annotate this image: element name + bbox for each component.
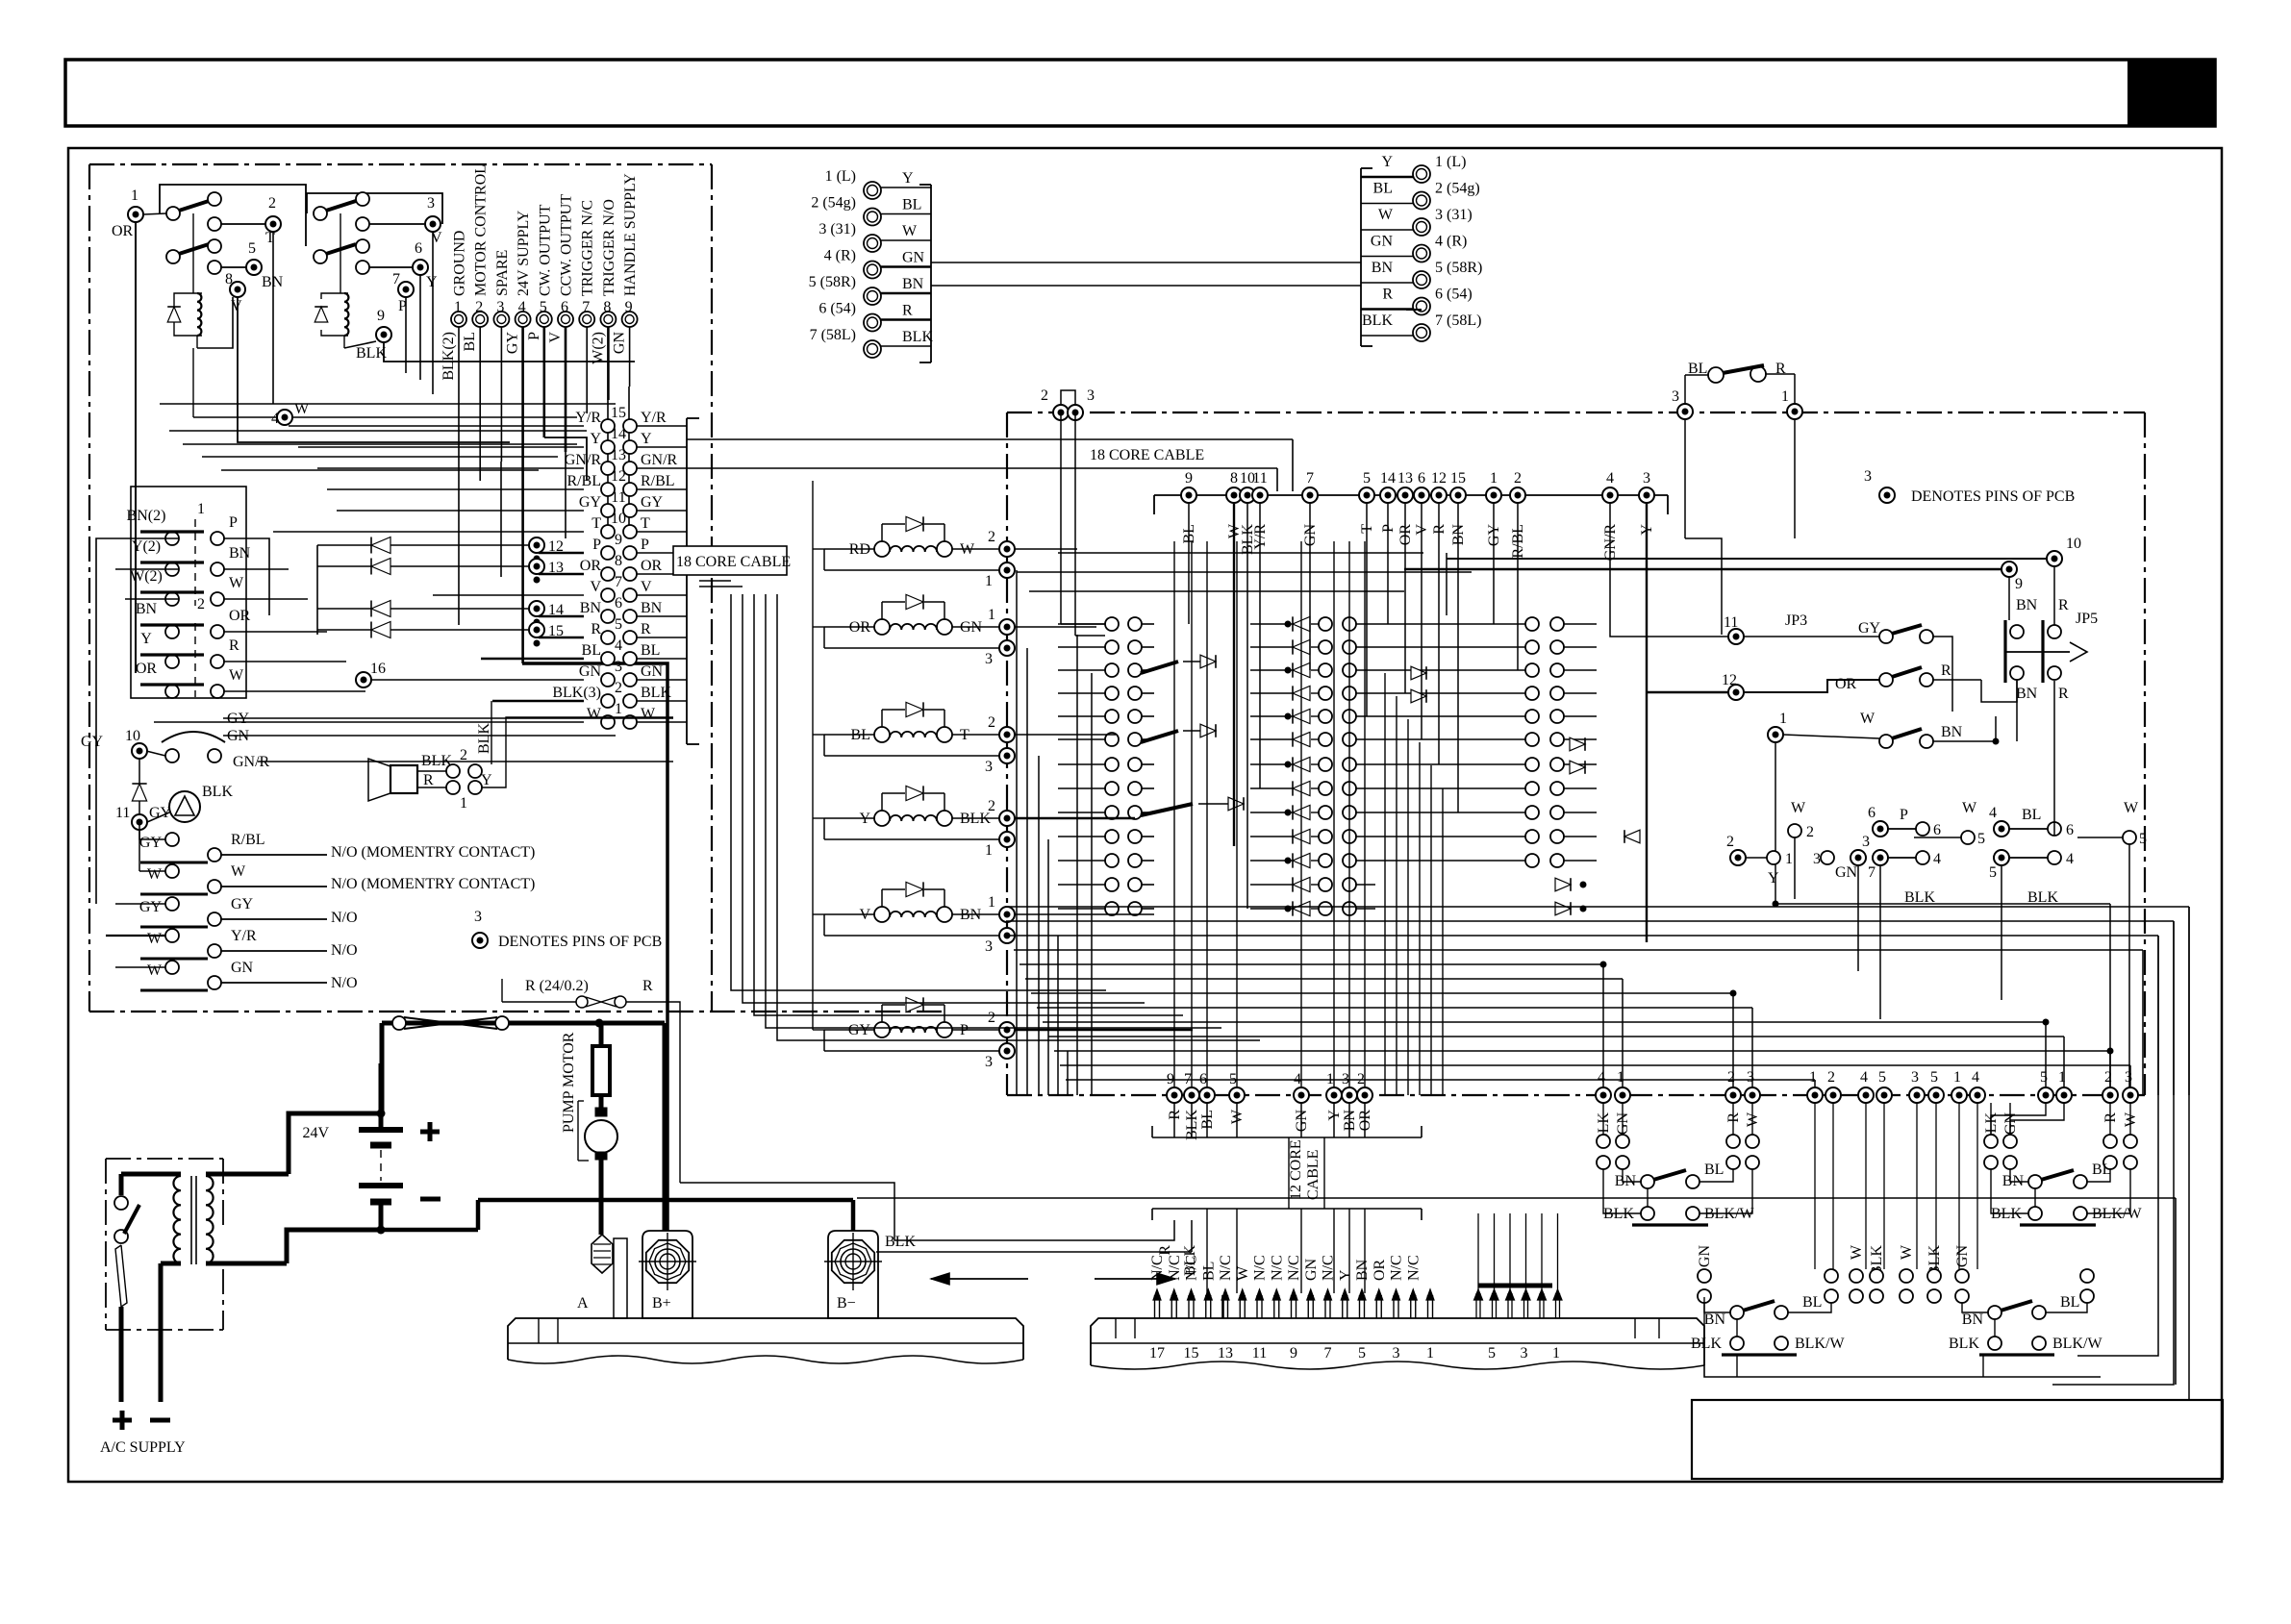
svg-text:BN: BN: [641, 600, 663, 616]
svg-text:6: 6: [1868, 805, 1876, 821]
svg-text:N/O: N/O: [331, 975, 358, 991]
svg-text:W: W: [2124, 800, 2139, 816]
svg-text:5 (58R): 5 (58R): [809, 274, 856, 290]
svg-text:R/BL: R/BL: [566, 473, 601, 489]
svg-text:Y/R: Y/R: [231, 928, 257, 944]
svg-text:GN: GN: [231, 960, 254, 976]
svg-text:T: T: [592, 515, 601, 532]
svg-text:BL: BL: [2092, 1162, 2111, 1178]
svg-text:N/C: N/C: [1269, 1255, 1285, 1281]
svg-text:2: 2: [1514, 470, 1522, 487]
svg-text:Y: Y: [140, 631, 152, 647]
svg-text:GN/R: GN/R: [641, 452, 678, 468]
svg-text:1: 1: [2058, 1069, 2066, 1086]
svg-text:PUMP MOTOR: PUMP MOTOR: [561, 1032, 577, 1133]
svg-text:N/O (MOMENTRY CONTACT): N/O (MOMENTRY CONTACT): [331, 844, 535, 861]
svg-text:R: R: [2058, 597, 2069, 613]
svg-text:13: 13: [1218, 1345, 1233, 1362]
svg-text:Y: Y: [426, 274, 438, 290]
svg-text:BLK: BLK: [356, 345, 387, 362]
svg-text:9: 9: [1290, 1345, 1297, 1362]
svg-text:BL: BL: [1704, 1162, 1724, 1178]
svg-text:GN: GN: [1303, 1258, 1320, 1281]
svg-text:BN: BN: [1372, 260, 1394, 276]
svg-text:6: 6: [1418, 470, 1425, 487]
svg-text:1: 1: [131, 187, 138, 204]
svg-text:1: 1: [197, 501, 205, 517]
svg-text:1: 1: [1490, 470, 1498, 487]
svg-text:T: T: [641, 515, 650, 532]
svg-text:GN: GN: [1835, 864, 1858, 881]
svg-text:7 (58L): 7 (58L): [1435, 312, 1481, 329]
svg-text:R: R: [641, 621, 651, 637]
svg-text:GY: GY: [81, 734, 104, 750]
svg-text:5: 5: [1977, 831, 1985, 847]
svg-text:5: 5: [1488, 1345, 1496, 1362]
svg-text:2: 2: [988, 1010, 995, 1026]
svg-text:5: 5: [2040, 1069, 2048, 1086]
svg-text:3: 3: [1862, 834, 1870, 850]
svg-text:2: 2: [197, 596, 205, 612]
svg-text:BL: BL: [2022, 807, 2041, 823]
svg-text:R: R: [1157, 1245, 1173, 1256]
svg-text:GY: GY: [641, 494, 664, 511]
svg-text:3: 3: [474, 909, 482, 925]
svg-text:N/O: N/O: [331, 942, 358, 959]
svg-text:5: 5: [1229, 1071, 1237, 1087]
svg-text:13: 13: [1397, 470, 1413, 487]
svg-text:N/C: N/C: [1184, 1255, 1200, 1281]
svg-text:2: 2: [1357, 1071, 1365, 1087]
svg-text:3: 3: [1643, 470, 1650, 487]
svg-text:Y(2): Y(2): [132, 538, 161, 555]
svg-text:OR: OR: [641, 558, 663, 574]
svg-text:R: R: [591, 621, 601, 637]
svg-text:JP3: JP3: [1785, 612, 1807, 629]
svg-text:OR: OR: [136, 661, 158, 677]
svg-text:W: W: [229, 575, 244, 591]
svg-text:5: 5: [1363, 470, 1371, 487]
svg-text:BN: BN: [2016, 597, 2038, 613]
svg-text:BN: BN: [1941, 724, 1963, 740]
svg-text:2 (54g): 2 (54g): [1435, 181, 1480, 197]
svg-text:CABLE: CABLE: [1305, 1150, 1322, 1200]
svg-text:Y: Y: [1337, 1269, 1353, 1281]
svg-text:BN: BN: [136, 601, 158, 617]
svg-text:P: P: [1900, 807, 1908, 823]
svg-text:4: 4: [1598, 1069, 1605, 1086]
svg-text:N/C: N/C: [1218, 1255, 1234, 1281]
svg-text:5: 5: [1989, 864, 1997, 881]
svg-text:3: 3: [1521, 1345, 1528, 1362]
svg-text:2: 2: [1727, 1069, 1735, 1086]
svg-text:1 (L): 1 (L): [825, 168, 856, 185]
svg-text:9: 9: [377, 308, 385, 324]
svg-text:OR: OR: [112, 223, 134, 239]
svg-text:2 (54g): 2 (54g): [811, 195, 856, 212]
svg-text:DENOTES PINS OF PCB: DENOTES PINS OF PCB: [498, 934, 662, 950]
svg-text:14: 14: [548, 602, 564, 618]
svg-text:CW. OUTPUT: CW. OUTPUT: [537, 204, 553, 296]
svg-text:2: 2: [1041, 387, 1048, 404]
svg-text:4: 4: [2066, 851, 2074, 867]
svg-text:OR: OR: [1835, 676, 1857, 692]
svg-text:N/O: N/O: [331, 910, 358, 926]
svg-text:1: 1: [1617, 1069, 1624, 1086]
svg-text:7: 7: [1184, 1071, 1192, 1087]
svg-text:14: 14: [1380, 470, 1396, 487]
svg-text:10: 10: [125, 728, 140, 744]
svg-text:15: 15: [1450, 470, 1466, 487]
svg-text:BLK: BLK: [1362, 312, 1393, 329]
svg-text:GY: GY: [505, 332, 521, 355]
svg-text:W: W: [147, 962, 163, 979]
svg-text:W: W: [1378, 207, 1394, 223]
svg-text:OR: OR: [229, 608, 251, 624]
svg-text:3: 3: [615, 659, 622, 675]
svg-text:9: 9: [1167, 1071, 1174, 1087]
svg-text:12: 12: [611, 468, 626, 485]
svg-text:W: W: [1791, 800, 1806, 816]
svg-text:1: 1: [460, 795, 467, 812]
svg-text:14: 14: [611, 426, 626, 442]
svg-text:2: 2: [988, 529, 995, 545]
svg-text:18 CORE CABLE: 18 CORE CABLE: [676, 554, 791, 570]
svg-text:1: 1: [1953, 1069, 1961, 1086]
svg-text:5 (58R): 5 (58R): [1435, 260, 1482, 276]
svg-text:18 CORE CABLE: 18 CORE CABLE: [1090, 447, 1204, 463]
svg-text:7: 7: [1306, 470, 1314, 487]
svg-text:HANDLE SUPPLY: HANDLE SUPPLY: [622, 173, 639, 296]
svg-text:GN: GN: [1954, 1245, 1971, 1268]
svg-text:4 (R): 4 (R): [824, 248, 856, 264]
svg-text:3: 3: [1672, 388, 1679, 405]
svg-text:12: 12: [1431, 470, 1447, 487]
svg-text:P: P: [592, 537, 601, 553]
svg-text:6: 6: [1933, 822, 1941, 838]
svg-text:N/C: N/C: [1389, 1255, 1405, 1281]
svg-text:6: 6: [1199, 1071, 1207, 1087]
svg-text:2: 2: [475, 299, 483, 315]
svg-text:BN: BN: [1962, 1312, 1984, 1328]
svg-text:BN(2): BN(2): [127, 508, 166, 524]
svg-text:15: 15: [548, 623, 564, 639]
svg-text:5: 5: [615, 616, 622, 633]
svg-text:BL: BL: [902, 197, 921, 213]
svg-text:11: 11: [611, 489, 625, 506]
svg-text:5: 5: [248, 240, 256, 257]
svg-text:BL: BL: [641, 642, 660, 659]
svg-text:A: A: [577, 1295, 589, 1312]
svg-text:P: P: [641, 537, 649, 553]
svg-text:6: 6: [415, 240, 422, 257]
svg-text:1: 1: [1809, 1069, 1817, 1086]
svg-text:7: 7: [1324, 1345, 1332, 1362]
svg-text:3: 3: [427, 195, 435, 212]
svg-text:N/C: N/C: [1405, 1255, 1422, 1281]
svg-text:TRIGGER N/C: TRIGGER N/C: [580, 200, 596, 296]
svg-text:OR: OR: [1372, 1259, 1388, 1281]
svg-text:W(2): W(2): [590, 332, 606, 364]
svg-text:3: 3: [985, 1054, 993, 1070]
svg-text:R/BL: R/BL: [231, 832, 265, 848]
svg-text:6: 6: [2066, 822, 2074, 838]
svg-text:2: 2: [988, 798, 995, 814]
svg-text:GN: GN: [902, 250, 925, 266]
svg-text:3 (31): 3 (31): [818, 221, 856, 237]
svg-text:1: 1: [1785, 851, 1793, 867]
svg-text:1: 1: [985, 573, 993, 589]
svg-text:4: 4: [518, 299, 526, 315]
svg-text:2: 2: [1726, 834, 1734, 850]
svg-text:W: W: [229, 667, 244, 684]
svg-text:N/C: N/C: [1167, 1255, 1183, 1281]
svg-text:BLK/W: BLK/W: [2052, 1336, 2102, 1352]
svg-text:BLK(3): BLK(3): [552, 685, 601, 701]
svg-text:3: 3: [2125, 1069, 2132, 1086]
svg-text:6: 6: [615, 595, 622, 612]
svg-text:N/O (MOMENTRY CONTACT): N/O (MOMENTRY CONTACT): [331, 876, 535, 892]
svg-text:13: 13: [611, 447, 626, 463]
svg-text:GY: GY: [579, 494, 602, 511]
svg-text:Y: Y: [590, 431, 601, 447]
svg-text:W: W: [1235, 1265, 1251, 1281]
svg-text:N/C: N/C: [1149, 1255, 1166, 1281]
svg-text:1: 1: [1779, 711, 1787, 727]
svg-text:3: 3: [985, 938, 993, 955]
svg-text:BL: BL: [462, 332, 478, 351]
svg-text:R: R: [1382, 287, 1393, 303]
svg-text:13: 13: [548, 560, 564, 576]
svg-text:6: 6: [561, 299, 568, 315]
svg-text:BN: BN: [1704, 1312, 1726, 1328]
svg-text:7: 7: [392, 271, 400, 287]
svg-text:6 (54): 6 (54): [1435, 287, 1473, 303]
svg-text:GY: GY: [139, 835, 163, 851]
svg-text:BLK: BLK: [641, 685, 671, 701]
svg-text:9: 9: [1185, 470, 1193, 487]
svg-text:4: 4: [1606, 470, 1614, 487]
svg-text:N/C: N/C: [1286, 1255, 1302, 1281]
svg-text:V: V: [641, 579, 652, 595]
svg-text:R: R: [2058, 686, 2069, 702]
svg-text:5: 5: [1930, 1069, 1938, 1086]
svg-text:GY: GY: [1858, 620, 1881, 637]
svg-text:1: 1: [454, 299, 462, 315]
svg-text:3: 3: [1747, 1069, 1754, 1086]
svg-text:4: 4: [1933, 851, 1941, 867]
svg-text:BN: BN: [1354, 1259, 1371, 1281]
svg-text:Y/R: Y/R: [641, 410, 667, 426]
svg-text:GY: GY: [139, 899, 163, 915]
svg-text:A/C SUPPLY: A/C SUPPLY: [100, 1439, 186, 1456]
svg-text:1: 1: [988, 894, 995, 911]
svg-text:1: 1: [1781, 388, 1789, 405]
svg-text:B−: B−: [837, 1295, 856, 1312]
svg-text:4: 4: [271, 411, 279, 427]
svg-text:2: 2: [988, 714, 995, 731]
svg-text:R (24/0.2): R (24/0.2): [525, 978, 589, 994]
svg-text:R: R: [1941, 662, 1951, 679]
svg-text:BLK(2): BLK(2): [441, 332, 457, 381]
svg-text:W: W: [1860, 711, 1876, 727]
svg-text:16: 16: [370, 661, 386, 677]
svg-text:W: W: [147, 931, 163, 947]
svg-text:1: 1: [1426, 1345, 1434, 1362]
svg-text:3: 3: [1864, 468, 1872, 485]
svg-text:7: 7: [615, 574, 622, 590]
svg-text:R: R: [423, 772, 434, 788]
svg-text:OR: OR: [580, 558, 602, 574]
svg-text:2: 2: [615, 680, 622, 696]
svg-text:1: 1: [985, 842, 993, 859]
svg-text:11: 11: [1252, 470, 1267, 487]
svg-text:8: 8: [603, 299, 611, 315]
svg-text:17: 17: [1149, 1345, 1165, 1362]
svg-text:3: 3: [985, 651, 993, 667]
svg-text:W: W: [1899, 1244, 1915, 1260]
svg-text:5: 5: [1358, 1345, 1366, 1362]
svg-text:2: 2: [2104, 1069, 2112, 1086]
svg-text:3 (31): 3 (31): [1435, 207, 1473, 223]
svg-text:BN: BN: [2016, 686, 2038, 702]
svg-text:11: 11: [1252, 1345, 1267, 1362]
svg-text:R: R: [229, 637, 239, 654]
svg-text:15: 15: [1184, 1345, 1199, 1362]
svg-text:2: 2: [1827, 1069, 1835, 1086]
svg-text:3: 3: [496, 299, 504, 315]
svg-text:10: 10: [611, 511, 626, 527]
svg-text:1: 1: [1326, 1071, 1334, 1087]
svg-text:GN/R: GN/R: [565, 452, 602, 468]
svg-text:4: 4: [1989, 805, 1997, 821]
svg-text:R/BL: R/BL: [641, 473, 675, 489]
svg-text:BLK: BLK: [202, 784, 233, 800]
svg-text:3: 3: [1342, 1071, 1349, 1087]
svg-text:W: W: [902, 223, 918, 239]
svg-text:2: 2: [1806, 824, 1814, 840]
svg-text:V: V: [547, 332, 564, 343]
svg-text:4: 4: [1294, 1071, 1301, 1087]
svg-text:Y: Y: [1768, 870, 1779, 887]
svg-text:GROUND: GROUND: [452, 231, 468, 296]
svg-text:10: 10: [2066, 536, 2081, 552]
svg-text:1: 1: [988, 607, 995, 623]
svg-text:DENOTES PINS OF PCB: DENOTES PINS OF PCB: [1911, 488, 2075, 505]
svg-text:GY: GY: [231, 896, 254, 912]
svg-text:9: 9: [615, 532, 622, 548]
svg-text:3: 3: [1813, 851, 1821, 867]
svg-text:9: 9: [2015, 576, 2023, 592]
svg-text:6 (54): 6 (54): [818, 301, 856, 317]
svg-text:15: 15: [611, 405, 626, 421]
svg-text:MOTOR CONTROL: MOTOR CONTROL: [473, 164, 490, 296]
svg-text:5: 5: [2139, 831, 2147, 847]
svg-text:24V: 24V: [302, 1125, 329, 1141]
svg-text:2: 2: [268, 195, 276, 212]
svg-text:1 (L): 1 (L): [1435, 154, 1466, 170]
svg-text:5: 5: [1878, 1069, 1886, 1086]
svg-text:9: 9: [625, 299, 633, 315]
svg-text:3: 3: [985, 759, 993, 775]
svg-text:1: 1: [1552, 1345, 1560, 1362]
svg-text:BN: BN: [580, 600, 602, 616]
svg-text:3: 3: [1911, 1069, 1919, 1086]
svg-text:12: 12: [1722, 672, 1737, 688]
svg-text:N/C: N/C: [1252, 1255, 1269, 1281]
svg-text:3: 3: [1393, 1345, 1400, 1362]
svg-text:BL: BL: [2060, 1294, 2079, 1311]
svg-text:4: 4: [1860, 1069, 1868, 1086]
svg-text:W: W: [641, 706, 656, 722]
svg-text:SPARE: SPARE: [494, 250, 511, 296]
svg-text:BL: BL: [1200, 1262, 1217, 1281]
svg-text:P: P: [526, 332, 542, 340]
svg-text:1: 1: [615, 701, 622, 717]
svg-text:24V SUPPLY: 24V SUPPLY: [516, 210, 532, 296]
svg-text:V: V: [590, 579, 601, 595]
svg-text:7 (58L): 7 (58L): [810, 327, 856, 343]
svg-text:11: 11: [115, 805, 130, 821]
svg-text:P: P: [229, 514, 238, 531]
svg-text:8: 8: [615, 553, 622, 569]
svg-text:BLK: BLK: [885, 1234, 916, 1250]
svg-text:Y: Y: [902, 170, 914, 187]
svg-text:BN: BN: [902, 276, 924, 292]
svg-text:BLK/W: BLK/W: [1795, 1336, 1845, 1352]
svg-text:CCW. OUTPUT: CCW. OUTPUT: [559, 194, 575, 296]
svg-text:B+: B+: [652, 1295, 671, 1312]
svg-text:W: W: [231, 863, 246, 880]
svg-text:R: R: [642, 978, 653, 994]
svg-text:GN: GN: [579, 663, 602, 680]
svg-text:BL: BL: [1373, 181, 1393, 197]
svg-text:4 (R): 4 (R): [1435, 234, 1467, 250]
svg-text:Y/R: Y/R: [575, 410, 601, 426]
svg-text:GN: GN: [1697, 1245, 1713, 1268]
svg-text:3: 3: [1087, 387, 1095, 404]
svg-text:GN: GN: [1371, 234, 1394, 250]
svg-text:5: 5: [540, 299, 547, 315]
svg-text:BL: BL: [1802, 1294, 1822, 1311]
svg-text:11: 11: [1724, 614, 1738, 631]
svg-text:GN: GN: [612, 332, 628, 355]
svg-text:8: 8: [1230, 470, 1238, 487]
svg-text:R: R: [902, 303, 913, 319]
svg-text:W: W: [1962, 800, 1977, 816]
svg-text:BLK: BLK: [1949, 1336, 1979, 1352]
svg-text:BLK: BLK: [902, 329, 933, 345]
svg-text:12: 12: [548, 538, 564, 555]
svg-text:Y: Y: [641, 431, 652, 447]
svg-text:W(2): W(2): [130, 568, 163, 585]
svg-text:TRIGGER N/O: TRIGGER N/O: [601, 199, 617, 296]
svg-text:BL: BL: [582, 642, 601, 659]
svg-text:8: 8: [225, 271, 233, 287]
svg-text:7: 7: [1868, 864, 1876, 881]
svg-text:N/C: N/C: [1321, 1255, 1337, 1281]
svg-text:W: W: [147, 866, 163, 883]
svg-text:W: W: [587, 706, 602, 722]
svg-text:GN: GN: [641, 663, 664, 680]
svg-text:4: 4: [1972, 1069, 1979, 1086]
svg-text:12 CORE: 12 CORE: [1288, 1139, 1304, 1200]
svg-text:Y: Y: [1381, 154, 1393, 170]
svg-text:BLK: BLK: [1691, 1336, 1722, 1352]
svg-text:BN: BN: [229, 545, 251, 562]
svg-text:4: 4: [615, 637, 622, 654]
svg-text:Y: Y: [481, 772, 492, 788]
